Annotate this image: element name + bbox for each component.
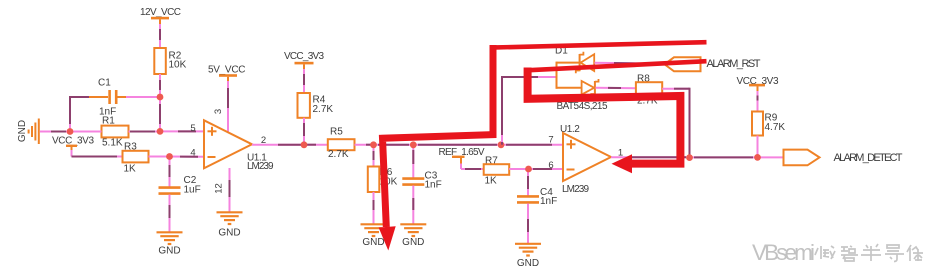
power port VCC_3V3 right — [737, 76, 779, 92]
svg-text:12V_VCC: 12V_VCC — [140, 7, 181, 18]
wire node to C2 — [169, 157, 171, 188]
junction C1/R2 — [157, 94, 164, 101]
svg-text:1uF: 1uF — [184, 185, 201, 196]
power port VCC_3V3 left — [52, 136, 94, 152]
wire C2 to GND — [169, 195, 171, 232]
resistor R6 — [368, 167, 398, 193]
wire feedback down to output — [689, 88, 691, 158]
wire node to ALARM_DETECT — [758, 156, 784, 158]
wire R9 to output node — [757, 136, 759, 158]
junction C3 — [410, 141, 417, 148]
svg-text:LM239: LM239 — [247, 161, 274, 172]
svg-text:GND: GND — [517, 258, 539, 269]
svg-text:VCC_3V3: VCC_3V3 — [284, 51, 324, 62]
annotation red arrow down — [379, 45, 493, 251]
resistor R3 — [123, 142, 149, 175]
svg-text:GND: GND — [218, 228, 240, 239]
wire VCC_3V3 to R9 — [757, 91, 759, 112]
port ALARM_DETECT — [784, 150, 903, 166]
ground under C4 — [515, 244, 541, 269]
wire node to C4 — [527, 169, 529, 196]
svg-text:ALARM_DETECT: ALARM_DETECT — [834, 152, 903, 164]
svg-text:VBsemi: VBsemi — [752, 240, 815, 265]
wire output to R9 node — [690, 156, 758, 158]
wire pin5 node to U1.1 — [160, 130, 204, 132]
svg-text:BAT54S,215: BAT54S,215 — [557, 101, 608, 112]
svg-text:GND: GND — [402, 237, 424, 248]
ground under C2 — [157, 232, 183, 256]
wire R2 to node — [159, 74, 161, 97]
resistor R1 — [102, 116, 129, 149]
wire 5V_VCC to pin 3 — [227, 81, 229, 132]
power port REF_1.65V — [439, 147, 485, 165]
annotation red line mid — [529, 61, 707, 70]
wire R4 to output node — [303, 118, 305, 145]
junction R6 — [370, 141, 377, 148]
port ALARM_RST — [665, 57, 761, 71]
wire VCC_3V3 to R3 — [72, 150, 123, 157]
svg-text:GND: GND — [158, 246, 180, 257]
wire U1.1 output — [252, 144, 328, 146]
op-amp U1.1 — [204, 120, 274, 172]
op-amp U1.2 — [560, 124, 611, 195]
ground under R6 — [361, 224, 387, 248]
wire U1.2 output — [611, 156, 690, 158]
power port VCC_3V3 mid — [284, 51, 324, 70]
svg-text:5: 5 — [190, 123, 195, 134]
wire D1 top to ALARM_RST — [595, 63, 666, 64]
annotation red line top — [490, 42, 707, 47]
wire R6 node to C3 node — [374, 144, 414, 146]
watermark VBsemi — [752, 240, 923, 265]
power port 12V_VCC — [140, 7, 181, 25]
wire node to C3 — [412, 145, 414, 178]
resistor R4 — [298, 93, 334, 118]
ground under U1.1 — [217, 212, 243, 238]
diode D1 (BAT54S dual schottky) — [555, 46, 608, 113]
junction R4/output — [301, 141, 308, 148]
wire R3 to pin4 node — [149, 156, 170, 158]
svg-text:6: 6 — [548, 160, 553, 171]
ground left (rotated) — [17, 119, 39, 145]
wire feedback to D1 — [501, 76, 557, 78]
wire REF node to U1.2 pin 7 — [501, 144, 563, 146]
junction R9/output — [754, 154, 761, 161]
wire C4 to GND — [527, 204, 529, 244]
wire pin4 node to U1.1 — [170, 156, 205, 158]
wire pin 12 to GND — [229, 168, 231, 212]
svg-text:1nF: 1nF — [540, 196, 557, 207]
svg-text:5.1K: 5.1K — [102, 138, 123, 149]
capacitor C4 — [517, 187, 557, 207]
svg-text:7: 7 — [548, 135, 553, 146]
wire R6 to GND — [373, 192, 375, 224]
svg-text:LM239: LM239 — [562, 184, 589, 195]
wire C1 right leg — [126, 96, 160, 98]
annotation red arrow left — [528, 68, 681, 174]
junction output/feedback — [686, 154, 693, 161]
wire node A to R1 — [70, 131, 102, 133]
capacitor C3 — [402, 171, 441, 191]
wire C1 left leg — [70, 96, 89, 132]
wire C4 node to U1.2 pin 6 — [529, 168, 564, 170]
capacitor C1 — [88, 78, 127, 118]
svg-text:ALARM_RST: ALARM_RST — [707, 58, 761, 70]
wire R8 to feedback corner — [662, 88, 689, 90]
svg-text:2.7K: 2.7K — [328, 149, 349, 160]
ground under C3 — [400, 224, 426, 248]
svg-text:1K: 1K — [485, 176, 498, 187]
svg-text:10K: 10K — [169, 60, 187, 71]
wire node to pin5 net — [159, 97, 161, 131]
svg-text:R5: R5 — [330, 127, 343, 138]
junction node A — [67, 128, 74, 135]
junction pin5 — [157, 128, 164, 135]
svg-text:3: 3 — [213, 109, 224, 114]
svg-text:GND: GND — [362, 237, 384, 248]
wire R7 to C4 node — [509, 168, 528, 170]
svg-text:C1: C1 — [98, 78, 111, 89]
wire feedback from pin7 node up — [501, 77, 503, 145]
wire node to R6 — [373, 145, 375, 167]
wire C3 to GND — [412, 186, 414, 224]
resistor R7 — [484, 156, 510, 187]
junction C4/pin6 — [525, 166, 532, 173]
wire GND to node A — [40, 131, 70, 133]
resistor R2 — [154, 48, 186, 74]
svg-text:5V_VCC: 5V_VCC — [208, 65, 246, 76]
svg-text:1K: 1K — [124, 164, 137, 175]
svg-text:4: 4 — [190, 148, 195, 159]
wire D1 bottom to R8 — [596, 87, 637, 89]
resistor R5 — [328, 127, 355, 161]
wire 12V_VCC to R2 — [159, 24, 161, 48]
svg-text:GND: GND — [17, 120, 28, 142]
wire REF to R7 — [461, 164, 484, 170]
wire VCC_3V3 to R4 — [303, 69, 305, 93]
svg-text:2.7K: 2.7K — [313, 104, 334, 115]
wire R5 to R6 node — [355, 144, 374, 146]
power port 5V_VCC — [208, 65, 246, 83]
wire R1 to pin5 node — [129, 131, 161, 133]
capacitor C2 — [159, 175, 201, 196]
svg-text:1nF: 1nF — [425, 180, 442, 191]
svg-text:4.7K: 4.7K — [765, 122, 786, 133]
resistor R9 — [752, 112, 785, 136]
svg-text:12: 12 — [214, 183, 225, 194]
junction pin4 — [166, 153, 173, 160]
junction feedback/pin7 — [498, 141, 505, 148]
resistor R8 — [636, 74, 662, 107]
wire C3 node to REF node — [413, 144, 501, 146]
